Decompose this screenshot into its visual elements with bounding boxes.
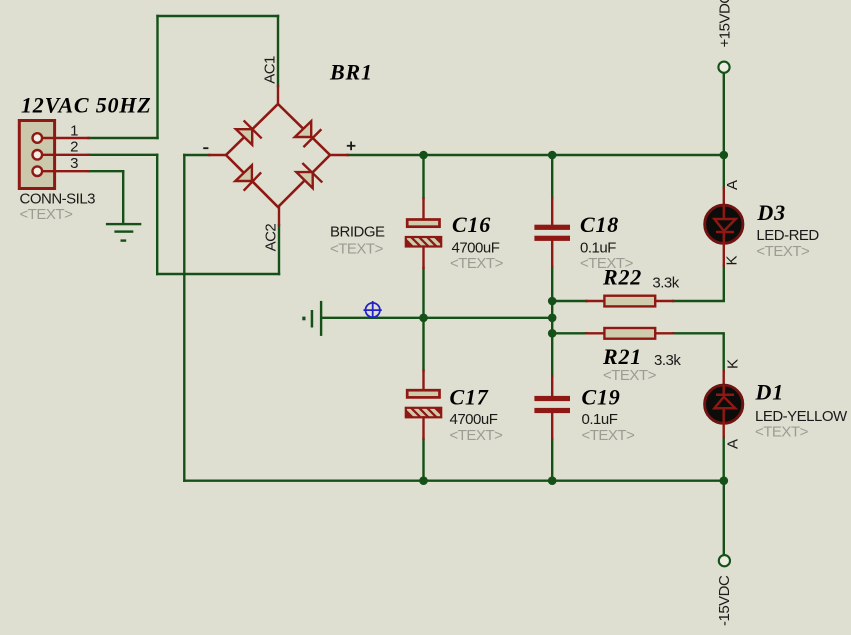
svg-text:BRIDGE: BRIDGE: [330, 224, 385, 241]
ground symbol under pin 3: [106, 223, 141, 242]
connector pin 1 circle: [33, 133, 43, 143]
diode D-BR triangle: [296, 172, 312, 188]
svg-text:3.3k: 3.3k: [652, 275, 679, 292]
wire pin1 column vertical: [156, 16, 158, 138]
svg-text:0.1uF: 0.1uF: [580, 240, 616, 257]
resistor R22 left pin red: [587, 300, 605, 302]
svg-text:+15VDC: +15VDC: [717, 0, 734, 48]
svg-text:K: K: [724, 256, 741, 266]
bridge BR1 diamond edges: [226, 104, 330, 207]
LED D1 body: [705, 385, 743, 424]
svg-text:R22: R22: [602, 265, 642, 290]
diode D-TL cathode bar: [245, 121, 261, 137]
svg-text:A: A: [725, 439, 742, 449]
capacitor C18 plates: [534, 225, 570, 241]
resistor R21 left pin red: [587, 332, 605, 334]
wire bottom rail: [184, 480, 724, 482]
node junction dot bottom rail C19: [548, 476, 557, 485]
wire C16 to mid rail green: [422, 268, 424, 371]
node origin marker: [364, 301, 382, 318]
node junction dot bottom rail C17: [419, 476, 428, 485]
node junction dot R21: [548, 329, 557, 338]
resistor R22 body: [604, 296, 655, 307]
capacitor C18 top pin red: [551, 198, 553, 225]
node junction dot C16 top: [419, 151, 428, 160]
svg-text:C19: C19: [582, 385, 621, 410]
svg-text:LED-RED: LED-RED: [756, 227, 819, 244]
wire R21 left green: [552, 332, 586, 334]
svg-text:2: 2: [70, 139, 78, 156]
wire pin 3 horizontal green: [89, 170, 124, 172]
LED D3 body: [705, 205, 743, 244]
svg-text:A: A: [724, 180, 741, 190]
LED D1 anode pin red: [723, 424, 725, 437]
node junction dot mid rail C18 column: [548, 314, 557, 323]
capacitor C19 plates: [534, 396, 570, 413]
wire bridge minus column down: [183, 155, 185, 481]
terminal +15VDC circle: [718, 62, 729, 73]
LED D3 anode pin red: [723, 188, 725, 204]
wire AC2 column vertical green: [278, 225, 280, 274]
svg-text:4700uF: 4700uF: [452, 240, 500, 257]
resistor R22 right pin red: [656, 300, 673, 302]
diode D-BL cathode bar: [245, 173, 261, 190]
wire C18 to C19 column green: [551, 267, 553, 377]
label bridge plus sign: [347, 142, 356, 151]
svg-text:3: 3: [70, 155, 78, 172]
capacitor C19 top pin red: [551, 376, 553, 397]
wire D3 anode green: [723, 155, 725, 188]
svg-text:CONN-SIL3: CONN-SIL3: [20, 191, 96, 208]
diode D-BL triangle: [235, 165, 252, 181]
capacitor C16 top pin red: [422, 198, 424, 218]
wire bridge minus horizontal green: [184, 154, 209, 156]
diode D-BR cathode bar: [303, 164, 321, 182]
svg-text:<TEXT>: <TEXT>: [582, 427, 636, 444]
capacitor C16 hatched plate: [405, 235, 441, 247]
wire R22 right green to LED column: [673, 266, 724, 302]
node junction dot D3 top: [720, 151, 729, 160]
node junction dot bottom rail D1: [720, 476, 729, 485]
svg-text:AC2: AC2: [262, 224, 279, 252]
capacitor C17 top pin red: [422, 371, 424, 391]
wire R21 right green to D1 column: [673, 333, 724, 371]
wire C16 column upper green: [422, 155, 424, 198]
wire +15VDC terminal to top rail: [723, 74, 725, 156]
svg-text:<TEXT>: <TEXT>: [755, 424, 809, 441]
wire pin 1 horizontal green: [89, 137, 158, 139]
svg-text:<TEXT>: <TEXT>: [756, 243, 810, 260]
capacitor C17 hatched plate: [405, 406, 441, 418]
wire pin2 to AC2 horizontal: [157, 273, 279, 275]
diode D-TR cathode bar: [304, 130, 320, 146]
wire C18 column upper green: [551, 155, 553, 198]
wire mid ground rail: [322, 317, 552, 319]
svg-text:C17: C17: [450, 385, 489, 410]
wire pin 3 down to ground: [122, 171, 124, 223]
LED D3 cathode pin red: [723, 244, 725, 265]
wire C17 to bottom rail green: [422, 439, 424, 481]
wire D1 anode to bottom rail green: [723, 437, 725, 481]
capacitor C17 top plate: [407, 390, 439, 397]
svg-text:D1: D1: [755, 380, 785, 405]
bridge BR1 pin plus red: [330, 154, 348, 156]
label bridge minus sign: [203, 147, 208, 149]
svg-text:C16: C16: [452, 212, 491, 237]
capacitor C19 bottom pin red: [551, 413, 553, 439]
node junction dot mid rail C16 column: [419, 314, 428, 323]
resistor R21 body: [604, 328, 655, 339]
capacitor C16 top plate: [407, 220, 439, 227]
connector pin 2 red stub: [43, 154, 89, 156]
svg-text:4700uF: 4700uF: [450, 411, 498, 428]
svg-text:1: 1: [70, 123, 78, 140]
svg-text:<TEXT>: <TEXT>: [450, 255, 504, 272]
diode D-TR triangle: [295, 121, 311, 137]
svg-text:<TEXT>: <TEXT>: [450, 427, 504, 444]
resistor R21 right pin red: [656, 332, 673, 334]
terminal -15VDC circle: [719, 555, 730, 566]
wire pin2 down vertical: [156, 155, 158, 274]
svg-text:0.1uF: 0.1uF: [582, 411, 618, 428]
wire plus rail top: [348, 154, 724, 156]
svg-text:C18: C18: [580, 212, 619, 237]
svg-text:D3: D3: [756, 200, 786, 225]
bridge BR1 pin AC2 red: [278, 207, 280, 225]
capacitor C16 bottom pin red: [422, 247, 424, 269]
svg-text:-15VDC: -15VDC: [716, 575, 733, 626]
connector pin 3 red stub: [43, 170, 89, 172]
wire top rail from pin1 column to AC1 column: [158, 15, 279, 17]
capacitor C17 bottom pin red: [422, 417, 424, 439]
svg-text:<TEXT>: <TEXT>: [330, 241, 384, 258]
svg-text:3.3k: 3.3k: [654, 352, 681, 369]
ground symbol rotated at mid rail: [302, 301, 322, 336]
node junction dot C18 top: [548, 151, 557, 160]
svg-text:K: K: [725, 359, 742, 369]
svg-text:<TEXT>: <TEXT>: [20, 206, 74, 223]
wire bottom rail to -15VDC terminal: [723, 481, 725, 555]
bridge BR1 pin minus red: [210, 154, 227, 156]
connector pin 3 circle: [33, 166, 43, 176]
svg-text:AC1: AC1: [262, 56, 279, 84]
wire C19 to bottom rail green: [551, 439, 553, 481]
connector pin 2 circle: [33, 150, 43, 160]
svg-text:LED-YELLOW: LED-YELLOW: [755, 408, 848, 425]
svg-text:12VAC 50HZ: 12VAC 50HZ: [21, 93, 151, 118]
wire AC1 column vertical green: [277, 16, 279, 86]
LED D1 cathode pin red: [723, 371, 725, 384]
connector J1 CONN-SIL3 body: [19, 121, 54, 189]
svg-text:<TEXT>: <TEXT>: [603, 367, 657, 384]
diode D-TL triangle: [236, 129, 252, 145]
wire R22 left green: [552, 300, 586, 302]
capacitor C18 bottom pin red: [551, 240, 553, 267]
svg-text:BR1: BR1: [329, 60, 373, 85]
wire pin 2 horizontal green: [89, 154, 158, 156]
bridge BR1 pin AC1 red: [277, 86, 279, 104]
connector pin 1 red stub: [43, 137, 89, 139]
node junction dot R22: [548, 297, 557, 306]
svg-text:R21: R21: [602, 344, 642, 369]
